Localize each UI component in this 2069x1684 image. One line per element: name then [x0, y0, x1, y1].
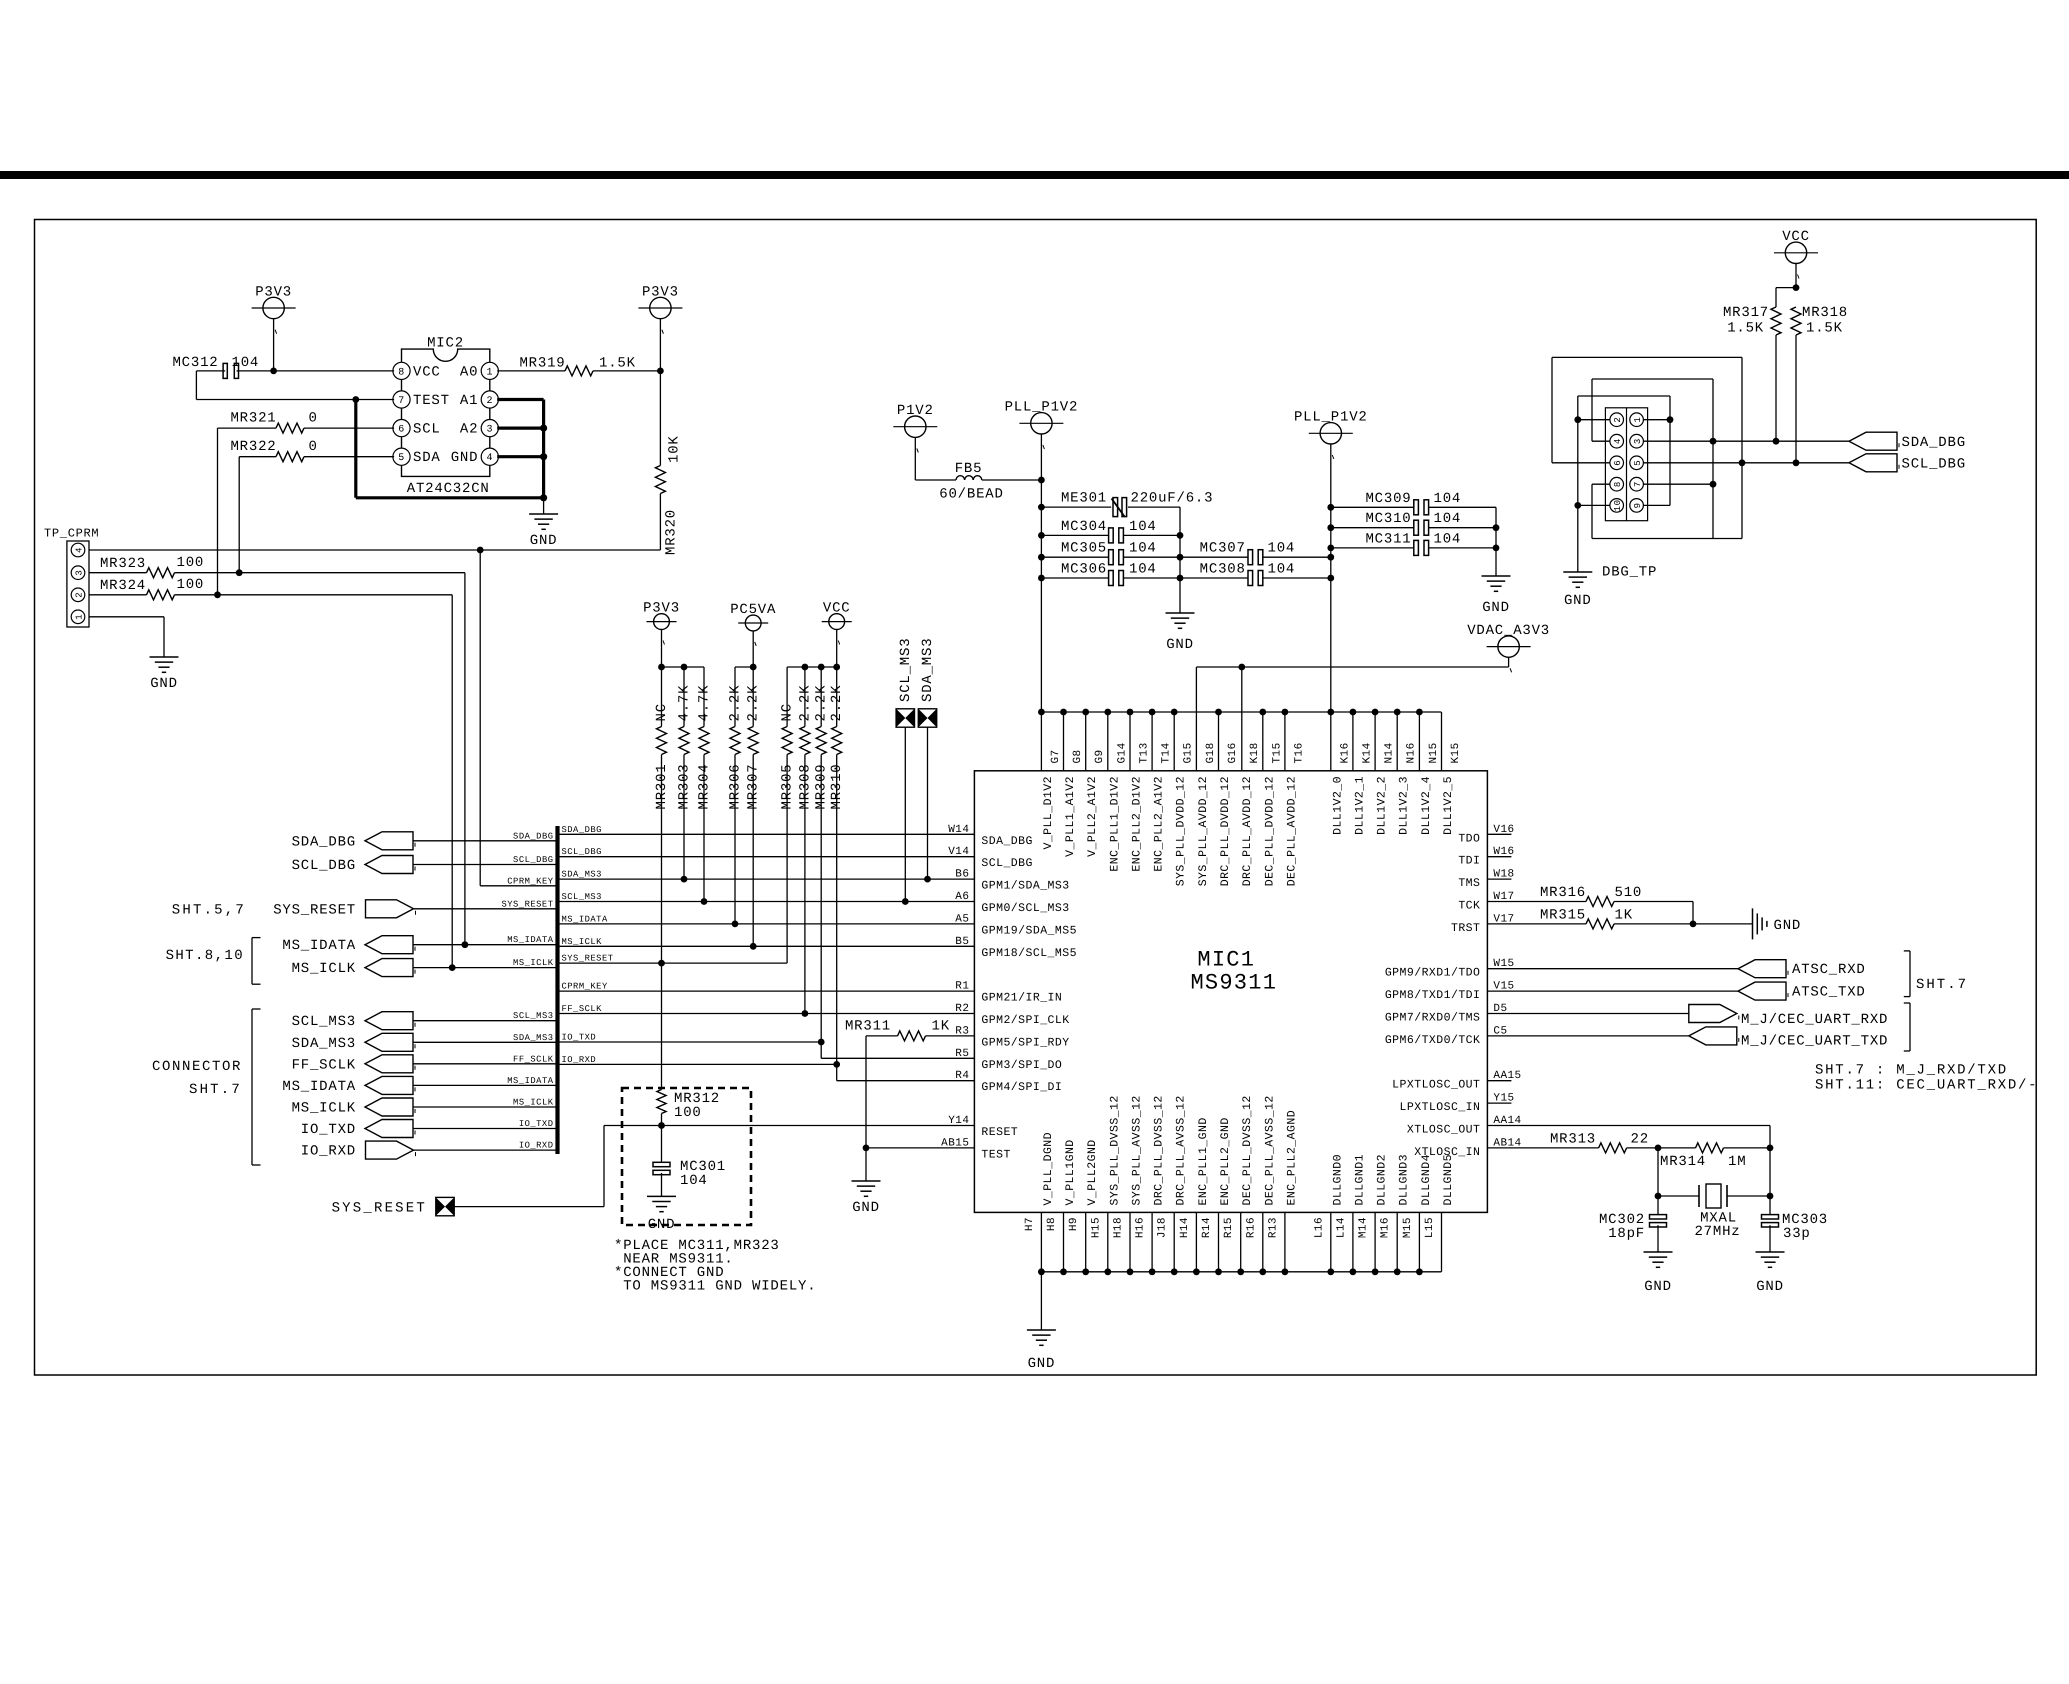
wire XTLOSC_OUT (AA14)	[1487, 1126, 1773, 1152]
svg-text:IO_RXD: IO_RXD	[562, 1055, 597, 1065]
bus vertical (left of MIC1)	[555, 826, 559, 1154]
svg-text:DLLGND4: DLLGND4	[1420, 1154, 1433, 1205]
offpage connector SYS_RESET (bottom)	[332, 1197, 455, 1216]
wire SYS_RESET bus to MR301/MR305	[558, 960, 788, 967]
svg-text:MS9311: MS9311	[1190, 971, 1277, 996]
power VDAC_A3V3	[1467, 623, 1550, 672]
wire XTLOSC_IN (AB14) to MR313	[1487, 1145, 1661, 1152]
svg-text:R15: R15	[1223, 1217, 1235, 1238]
svg-text:MC308: MC308	[1200, 562, 1246, 578]
svg-text:V14: V14	[948, 846, 969, 858]
svg-text:100: 100	[177, 555, 205, 571]
svg-text:MC312: MC312	[172, 355, 218, 371]
svg-text:AT24C32CN: AT24C32CN	[407, 481, 490, 497]
resistor MR318 1.5K	[1791, 305, 1848, 337]
svg-text:MS_ICLK: MS_ICLK	[292, 961, 356, 977]
svg-text:1K: 1K	[1615, 907, 1633, 923]
svg-text:GPM0/SCL_MS3: GPM0/SCL_MS3	[981, 902, 1069, 915]
capacitor MC303 33p	[1762, 1196, 1829, 1242]
wire MR301 column to SYS_RESET / MR312	[661, 755, 663, 1090]
svg-text:M16: M16	[1380, 1217, 1392, 1238]
resistor MR309 2.2K	[814, 667, 830, 810]
wire SYS_RESET flag to bus	[414, 908, 558, 910]
wire MR310 column upper	[836, 755, 838, 1065]
svg-text:SCL: SCL	[413, 422, 441, 438]
resistor MR320 10K	[655, 435, 682, 555]
wire SDA_DBG bus to MIC1 W14	[558, 833, 975, 835]
wire bold TEST loop	[356, 400, 547, 502]
wire PLL_P1V2 rail column (K16)	[1327, 504, 1334, 712]
svg-text:DLL1V2_1: DLL1V2_1	[1353, 776, 1366, 835]
svg-text:V_PLL1GND: V_PLL1GND	[1064, 1139, 1077, 1205]
svg-text:SCL_MS3: SCL_MS3	[513, 1011, 553, 1021]
svg-text:A1: A1	[460, 393, 478, 409]
wire DBG_TP pin4/pin3 SDA_DBG net	[1592, 379, 1849, 539]
wire MS_IDATA flag to bus	[413, 944, 558, 946]
svg-text:MR322: MR322	[230, 439, 276, 455]
svg-text:GPM3/SPI_DO: GPM3/SPI_DO	[981, 1059, 1062, 1072]
svg-text:SHT.5,7: SHT.5,7	[172, 902, 246, 918]
svg-text:ENC_PLL2_GND: ENC_PLL2_GND	[1219, 1117, 1232, 1205]
wire SCL_MS3 flag to bus	[413, 1020, 558, 1022]
svg-text:DLL1V2_4: DLL1V2_4	[1420, 776, 1433, 835]
svg-text:G18: G18	[1205, 742, 1217, 763]
bus entry net labels	[501, 831, 553, 1150]
svg-text:TDO: TDO	[1458, 832, 1480, 845]
wire MR322 SDA	[236, 457, 394, 576]
wire MR307 column	[752, 755, 754, 947]
svg-text:M14: M14	[1358, 1217, 1370, 1238]
svg-text:H8: H8	[1046, 1217, 1058, 1231]
svg-text:3: 3	[74, 570, 84, 576]
flag MS_IDATA (input)	[282, 936, 415, 955]
wire TRST to GND	[1487, 923, 1752, 925]
border frame	[35, 220, 2037, 1376]
svg-text:60/BEAD: 60/BEAD	[939, 487, 1003, 503]
svg-text:DRC_PLL_AVDD_12: DRC_PLL_AVDD_12	[1241, 776, 1254, 886]
resistor MR319 1.5K	[519, 356, 635, 376]
wire GPM6/TXD0/TCK to flag	[1487, 1035, 1688, 1037]
svg-text:K18: K18	[1249, 742, 1261, 763]
svg-text:33p: 33p	[1783, 1226, 1811, 1242]
svg-text:R2: R2	[955, 1003, 969, 1015]
svg-text:3: 3	[487, 425, 494, 436]
svg-text:3: 3	[1633, 438, 1643, 444]
svg-text:H16: H16	[1135, 1217, 1147, 1238]
svg-text:DEC_PLL_AVDD_12: DEC_PLL_AVDD_12	[1285, 776, 1298, 886]
IC MIC1 right pin labels	[1385, 824, 1522, 1159]
svg-text:J18: J18	[1157, 1217, 1169, 1238]
svg-text:ATSC_RXD: ATSC_RXD	[1792, 962, 1866, 978]
ground (MIC1 bottom)	[1027, 1272, 1056, 1372]
power PLL_P1V2 (right)	[1294, 410, 1368, 508]
wire MR323 row to MS_IDATA riser	[89, 573, 468, 948]
svg-text:G16: G16	[1227, 742, 1239, 763]
svg-text:MR314: MR314	[1660, 1154, 1706, 1170]
svg-text:ENC_PLL2_A1V2: ENC_PLL2_A1V2	[1153, 776, 1166, 872]
ground MIC2 GND	[529, 498, 558, 549]
resistor MR321 0	[230, 411, 317, 434]
flag IO_TXD (input)	[301, 1120, 415, 1139]
svg-text:DLL1V2_3: DLL1V2_3	[1398, 776, 1411, 835]
svg-text:P1V2: P1V2	[897, 403, 934, 419]
wire FF_SCLK flag to bus	[413, 1063, 558, 1065]
svg-text:GND: GND	[1644, 1279, 1672, 1295]
flag SDA_MS3 (input)	[292, 1033, 415, 1052]
wire DBG_TP pin6/pin8 SCL_DBG net	[1552, 357, 1849, 538]
svg-text:V_PLL2GND: V_PLL2GND	[1086, 1139, 1099, 1205]
wire MR317 column to SDA_DBG	[1773, 335, 1780, 445]
capacitor MC310 104	[1331, 511, 1496, 535]
wire MR305 column to SYS_RESET	[786, 755, 788, 964]
svg-text:V_PLL_DGND: V_PLL_DGND	[1042, 1132, 1055, 1206]
svg-text:ATSC_TXD: ATSC_TXD	[1792, 985, 1866, 1001]
svg-text:MC309: MC309	[1365, 491, 1411, 507]
svg-text:V_PLL2_A1V2: V_PLL2_A1V2	[1086, 776, 1099, 857]
power VCC (DBG_TP)	[1774, 229, 1818, 291]
svg-text:ME301: ME301	[1061, 491, 1107, 507]
svg-text:27MHz: 27MHz	[1694, 1224, 1740, 1240]
IC MIC1 bottom pin labels	[1024, 1095, 1455, 1238]
resistor MR317 1.5K	[1723, 305, 1781, 337]
svg-text:22: 22	[1631, 1131, 1649, 1147]
resistor MR311 1K	[845, 1019, 950, 1041]
svg-text:GND: GND	[150, 676, 178, 692]
svg-text:SCL_MS3: SCL_MS3	[562, 892, 602, 902]
resistor MR306 2.2K	[728, 667, 744, 810]
flag ATSC_RXD	[1738, 960, 1866, 979]
svg-text:SYS_PLL_DVSS_12: SYS_PLL_DVSS_12	[1108, 1095, 1121, 1205]
flag M_J/CEC_UART_RXD	[1689, 1005, 1888, 1029]
flag SYS_RESET (output)	[172, 900, 416, 919]
connector TP_CPRM	[44, 527, 99, 628]
ground (PLL_P1V2 caps)	[1482, 507, 1511, 616]
wire DBG_TP pin2/pin10 ground net	[1574, 396, 1673, 572]
wire crystal columns	[1655, 1148, 1774, 1200]
capacitor ME301 220uF/6.3	[1041, 491, 1213, 517]
wire IO_RXD flag to bus	[414, 1149, 558, 1151]
resistor MR310 2.2K	[829, 667, 845, 810]
svg-text:MR323: MR323	[100, 556, 146, 572]
wire bottom ground bus	[1038, 1268, 1441, 1275]
svg-text:SDA_MS3: SDA_MS3	[292, 1036, 356, 1052]
wire VCC bank bus	[787, 664, 840, 671]
svg-text:104: 104	[1434, 531, 1462, 547]
svg-text:DLLGND3: DLLGND3	[1398, 1154, 1411, 1205]
svg-text:SHT.7 : M_J_RXD/TXD: SHT.7 : M_J_RXD/TXD	[1815, 1063, 2008, 1079]
wire MR311 to MIC1 R3	[926, 1035, 975, 1037]
wire MS_ICLK flag to bus	[413, 1106, 558, 1108]
wire VCC row MIC2 pin8	[196, 368, 394, 375]
offpage connector SDA_MS3	[918, 638, 936, 728]
wire VCC split	[1776, 288, 1796, 307]
IC MIC1 top pin labels	[1042, 742, 1462, 886]
svg-text:MR319: MR319	[519, 356, 565, 372]
svg-text:SCL_DBG: SCL_DBG	[562, 847, 602, 857]
svg-text:M_J/CEC_UART_TXD: M_J/CEC_UART_TXD	[1741, 1033, 1888, 1049]
svg-text:M15: M15	[1402, 1217, 1414, 1238]
svg-text:SDA: SDA	[413, 450, 441, 466]
wire MC301 to GND	[661, 1173, 663, 1196]
ground TP_CPRM GND	[150, 657, 179, 692]
svg-text:TCK: TCK	[1458, 900, 1480, 913]
ground (MC301)	[647, 1196, 676, 1233]
svg-text:SYS_RESET: SYS_RESET	[501, 899, 553, 909]
svg-text:P3V3: P3V3	[643, 601, 680, 617]
svg-text:SCL_DBG: SCL_DBG	[292, 858, 356, 874]
power P3V3 (MIC2 left)	[252, 284, 296, 371]
flag SDA_DBG (right)	[1849, 432, 1966, 451]
svg-text:B6: B6	[955, 869, 969, 881]
svg-text:DRC_PLL_DVDD_12: DRC_PLL_DVDD_12	[1219, 776, 1232, 886]
svg-text:MR313: MR313	[1550, 1131, 1596, 1147]
svg-text:GPM8/TXD1/TDI: GPM8/TXD1/TDI	[1385, 989, 1481, 1002]
svg-text:TDI: TDI	[1458, 855, 1480, 868]
flag MS_IDATA (input)	[282, 1076, 415, 1095]
svg-text:R13: R13	[1267, 1217, 1279, 1238]
flag FF_SCLK (input)	[292, 1055, 415, 1074]
resistor MR301 NC	[654, 667, 670, 810]
wire TCK to MR316 to TRST	[1487, 902, 1696, 928]
svg-text:LPXTLOSC_OUT: LPXTLOSC_OUT	[1392, 1079, 1480, 1092]
flag SDA_DBG (input)	[292, 832, 415, 851]
capacitor MC302 18pF	[1599, 1196, 1667, 1242]
power P3V3 (resistor bank)	[643, 601, 680, 667]
svg-text:SYS_PLL_DVDD_12: SYS_PLL_DVDD_12	[1175, 776, 1188, 886]
svg-text:FB5: FB5	[955, 461, 983, 477]
svg-text:1.5K: 1.5K	[1806, 321, 1843, 337]
svg-text:GND: GND	[451, 450, 479, 466]
svg-text:TO MS9311 GND WIDELY.: TO MS9311 GND WIDELY.	[614, 1279, 816, 1295]
svg-text:N14: N14	[1384, 742, 1396, 763]
wire MS_ICLK flag to bus	[413, 967, 558, 969]
svg-text:SHT.11: CEC_UART_RXD/-: SHT.11: CEC_UART_RXD/-	[1815, 1078, 2038, 1094]
svg-text:R5: R5	[955, 1048, 969, 1060]
svg-text:G7: G7	[1050, 749, 1062, 763]
svg-text:104: 104	[1434, 511, 1462, 527]
svg-text:V_PLL_D1V2: V_PLL_D1V2	[1042, 776, 1055, 850]
bracket (M_J/CEC pair)	[1904, 1003, 1910, 1051]
bus exit net labels	[562, 825, 614, 1065]
svg-text:K16: K16	[1339, 742, 1351, 763]
flag SCL_DBG (input)	[292, 856, 415, 875]
wire TP_CPRM pin4 CPRM pullup net	[89, 547, 660, 886]
wire GPM7/RXD0/TMS to flag	[1487, 1013, 1688, 1015]
svg-text:104: 104	[1129, 519, 1157, 535]
svg-text:VDAC_A3V3: VDAC_A3V3	[1467, 623, 1550, 639]
svg-text:MS_IDATA: MS_IDATA	[562, 914, 608, 924]
crystal MXAL 27MHz	[1658, 1184, 1770, 1240]
svg-text:SHT.8,10: SHT.8,10	[166, 948, 244, 964]
svg-text:GND: GND	[1564, 593, 1592, 609]
label SHT.8,10 bracket	[166, 938, 261, 985]
wire MIC2 pin1 A0 to P3V3	[497, 368, 664, 375]
svg-text:4: 4	[1613, 438, 1623, 444]
svg-text:510: 510	[1615, 885, 1643, 901]
svg-text:104: 104	[680, 1173, 708, 1189]
svg-text:IO_TXD: IO_TXD	[301, 1122, 356, 1138]
svg-text:FF_SCLK: FF_SCLK	[562, 1004, 603, 1014]
wire SCL_MS3 offpage column	[904, 727, 906, 901]
svg-text:H18: H18	[1113, 1217, 1125, 1238]
svg-text:0: 0	[309, 439, 318, 455]
svg-text:ENC_PLL1_D1V2: ENC_PLL1_D1V2	[1108, 776, 1121, 872]
flag ATSC_TXD	[1738, 982, 1866, 1001]
svg-text:1M: 1M	[1728, 1154, 1746, 1170]
top separator bar	[0, 171, 2069, 179]
svg-text:MC311: MC311	[1365, 531, 1411, 547]
svg-text:MC307: MC307	[1200, 541, 1246, 557]
svg-text:R4: R4	[955, 1070, 969, 1082]
svg-text:W14: W14	[948, 824, 969, 836]
wire FF_SCLK bus to MIC1 R2	[558, 1010, 975, 1017]
resistor MR314 1M	[1660, 1143, 1746, 1170]
svg-text:GND: GND	[852, 1200, 880, 1216]
svg-text:P3V3: P3V3	[642, 284, 679, 300]
label CONNECTOR SHT.7 bracket	[152, 1009, 261, 1165]
svg-text:K15: K15	[1450, 742, 1462, 763]
svg-text:MS_IDATA: MS_IDATA	[507, 935, 553, 945]
wire IO_TXD flag to bus	[413, 1128, 558, 1130]
svg-text:GPM21/IR_IN: GPM21/IR_IN	[981, 992, 1062, 1005]
resistor MR313 22	[1550, 1131, 1649, 1153]
wire MC302 to GND	[1657, 1225, 1659, 1252]
ground (DBG_TP)	[1563, 572, 1592, 609]
svg-text:1.5K: 1.5K	[1727, 321, 1764, 337]
capacitor MC304 104	[1041, 519, 1180, 543]
svg-text:GPM5/SPI_RDY: GPM5/SPI_RDY	[981, 1036, 1069, 1049]
resistor MR308 2.2K	[797, 667, 813, 810]
wire MR324 row to MS_ICLK riser	[89, 595, 456, 971]
resistor MR312 100	[657, 1090, 720, 1122]
wire SCL_DBG flag to bus	[413, 864, 558, 866]
svg-text:SCL_MS3: SCL_MS3	[898, 638, 914, 702]
svg-text:A6: A6	[955, 891, 969, 903]
svg-text:MR311: MR311	[845, 1019, 891, 1035]
svg-text:DLL1V2_5: DLL1V2_5	[1442, 776, 1455, 835]
label SHT.7/SHT.11 note	[1815, 1063, 2038, 1094]
wire GPM9/RXD1/TDO to ATSC_RXD	[1487, 968, 1738, 970]
wire TP_CPRM pin1 to GND	[89, 617, 164, 657]
svg-text:VCC: VCC	[1782, 229, 1810, 245]
svg-text:DEC_PLL_DVDD_12: DEC_PLL_DVDD_12	[1263, 776, 1276, 886]
svg-text:0: 0	[309, 411, 318, 427]
svg-text:SCL_DBG: SCL_DBG	[981, 857, 1032, 870]
svg-text:TEST: TEST	[413, 393, 450, 409]
offpage connector SCL_MS3	[896, 638, 914, 728]
ground (MC302)	[1644, 1252, 1673, 1295]
svg-text:2: 2	[1613, 417, 1623, 423]
svg-text:SDA_MS3: SDA_MS3	[920, 638, 936, 702]
svg-text:MS_IDATA: MS_IDATA	[282, 1079, 356, 1095]
flag MS_ICLK (input)	[292, 959, 415, 978]
svg-text:MR316: MR316	[1540, 885, 1586, 901]
svg-text:DLLGND1: DLLGND1	[1353, 1154, 1366, 1205]
svg-text:P3V3: P3V3	[255, 284, 292, 300]
wire GPM8/TXD1/TDI to ATSC_TXD	[1487, 990, 1738, 992]
svg-text:TRST: TRST	[1451, 922, 1480, 935]
svg-text:MC304: MC304	[1061, 519, 1107, 535]
svg-text:SDA_DBG: SDA_DBG	[562, 825, 602, 835]
resistor MR322 0	[230, 439, 317, 462]
svg-text:GPM4/SPI_DI: GPM4/SPI_DI	[981, 1081, 1062, 1094]
ground (TEST pin)	[852, 1181, 881, 1216]
svg-text:100: 100	[177, 577, 205, 593]
wire bold MIC2 pins A1 A2 GND	[497, 400, 547, 498]
svg-text:SCL_MS3: SCL_MS3	[292, 1014, 356, 1030]
IC MIC2 AT24C32CN body	[393, 335, 499, 497]
capacitor MC309 104	[1331, 491, 1496, 515]
svg-text:GPM18/SCL_MS5: GPM18/SCL_MS5	[981, 947, 1077, 960]
svg-text:GPM2/SPI_CLK: GPM2/SPI_CLK	[981, 1014, 1069, 1027]
svg-text:1.5K: 1.5K	[599, 356, 636, 372]
svg-text:MS_ICLK: MS_ICLK	[513, 958, 554, 968]
wire TEST MIC1 AB15	[866, 1147, 974, 1149]
svg-text:A2: A2	[460, 422, 478, 438]
ground (TRST, rotated)	[1753, 908, 1802, 939]
flag SCL_MS3 (input)	[292, 1012, 415, 1030]
svg-text:SYS_PLL_AVSS_12: SYS_PLL_AVSS_12	[1131, 1095, 1144, 1205]
wire MS_ICLK bus to MIC1 B5	[558, 943, 975, 950]
capacitor MC308 104	[1180, 562, 1331, 586]
resistor MR316 510	[1540, 885, 1642, 907]
svg-text:1K: 1K	[932, 1019, 950, 1035]
svg-text:PLL_P1V2: PLL_P1V2	[1294, 410, 1368, 426]
resistor MR305 NC	[780, 667, 796, 810]
svg-text:DRC_PLL_AVSS_12: DRC_PLL_AVSS_12	[1175, 1095, 1188, 1205]
wire RESET row to MIC1 Y14	[604, 1125, 974, 1127]
svg-text:MC305: MC305	[1061, 541, 1107, 557]
wire MR309 column upper	[820, 755, 822, 1043]
wire SDA_MS3 bus to MIC1 B6	[558, 876, 975, 883]
wire top power bus	[1038, 709, 1441, 716]
svg-text:G15: G15	[1183, 742, 1195, 763]
power PC5VA	[730, 602, 776, 667]
svg-text:SDA_DBG: SDA_DBG	[292, 834, 356, 850]
svg-text:AB15: AB15	[941, 1137, 969, 1149]
wire MC303 to GND	[1769, 1225, 1771, 1252]
svg-text:T13: T13	[1139, 742, 1151, 763]
svg-text:4: 4	[487, 453, 494, 464]
wire MS_IDATA flag to bus	[413, 1084, 558, 1086]
svg-text:N16: N16	[1406, 742, 1418, 763]
wire SCL_MS3 bus to MIC1 A6	[558, 898, 975, 905]
svg-text:DEC_PLL_DVSS_12: DEC_PLL_DVSS_12	[1241, 1095, 1254, 1205]
svg-text:MS_IDATA: MS_IDATA	[282, 938, 356, 954]
svg-text:FF_SCLK: FF_SCLK	[513, 1054, 554, 1064]
svg-text:DLL1V2_2: DLL1V2_2	[1376, 776, 1389, 835]
svg-text:MR324: MR324	[100, 578, 146, 594]
resistor MR323 100	[100, 555, 204, 578]
note text placement	[614, 1238, 816, 1295]
svg-text:MS_ICLK: MS_ICLK	[562, 937, 603, 947]
svg-text:SYS_RESET: SYS_RESET	[562, 954, 614, 964]
capacitor MC305 104	[1041, 541, 1180, 565]
svg-text:MR317: MR317	[1723, 305, 1769, 321]
svg-text:SHT.7: SHT.7	[1916, 977, 1968, 993]
svg-text:TMS: TMS	[1458, 877, 1480, 890]
svg-text:A5: A5	[955, 913, 969, 925]
svg-text:H14: H14	[1179, 1217, 1191, 1238]
svg-text:9: 9	[1633, 502, 1643, 508]
svg-text:GND: GND	[648, 1217, 676, 1233]
svg-text:GPM7/RXD0/TMS: GPM7/RXD0/TMS	[1385, 1012, 1481, 1025]
svg-text:T16: T16	[1293, 742, 1305, 763]
svg-text:104: 104	[1268, 562, 1296, 578]
svg-text:GND: GND	[1756, 1279, 1784, 1295]
svg-text:104: 104	[1434, 491, 1462, 507]
svg-text:GND: GND	[530, 533, 558, 549]
